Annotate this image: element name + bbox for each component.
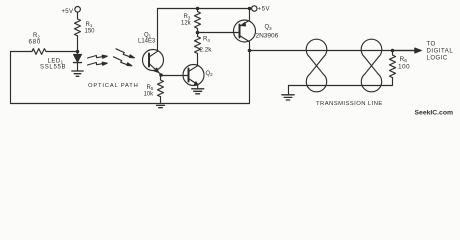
- transistor Q2: [183, 65, 204, 86]
- LED light arrow 1: [88, 55, 108, 58]
- ground transmission line: [282, 95, 294, 100]
- node R1 R2 LED junction: [76, 50, 80, 54]
- wire node to R5: [160, 75, 162, 80]
- wire Q1 collector up: [157, 9, 159, 52]
- svg-text:LOGIC: LOGIC: [427, 56, 448, 62]
- resistor R5: [158, 80, 164, 97]
- ground R5: [157, 105, 165, 107]
- wire R6 top lead: [392, 51, 394, 56]
- svg-text:R4: R4: [203, 37, 210, 43]
- svg-text:+5V: +5V: [258, 7, 271, 13]
- resistor R2: [32, 49, 46, 55]
- svg-text:+5V: +5V: [62, 9, 74, 15]
- svg-text:R3: R3: [184, 14, 191, 20]
- wire R4 to Q2 collector: [197, 54, 199, 66]
- wire rail to Q3 emitter: [249, 9, 251, 21]
- svg-text:TRANSMISSION LINE: TRANSMISSION LINE: [316, 101, 383, 107]
- wire TL ground stub: [288, 86, 290, 95]
- wire Q2 emitter lead: [197, 85, 199, 89]
- svg-text:2.2k: 2.2k: [200, 46, 213, 53]
- node R3 top: [196, 7, 200, 11]
- LED light arrow 2: [88, 62, 108, 65]
- resistor R3: [195, 12, 201, 29]
- svg-text:OPTICAL PATH: OPTICAL PATH: [88, 83, 139, 89]
- svg-text:SeekIC.com: SeekIC.com: [415, 110, 454, 117]
- wire transmission line top: [250, 50, 416, 52]
- resistor R1: [75, 19, 81, 36]
- wire R2 horizontal left: [11, 51, 33, 53]
- ground LED: [72, 71, 83, 76]
- wire R2 to LED junction: [46, 51, 78, 53]
- transistor Q3 2N3906: [234, 20, 256, 42]
- light arrow into Q1 lower: [114, 57, 132, 66]
- svg-text:SSL55B: SSL55B: [40, 64, 66, 70]
- wire transmission line bottom: [289, 85, 393, 87]
- wire Q3 collector down: [249, 42, 251, 50]
- svg-text:DIGITAL: DIGITAL: [427, 48, 454, 54]
- wire R3 to node: [197, 9, 199, 12]
- svg-text:10k: 10k: [144, 91, 155, 97]
- wire R1 bottom lead: [77, 36, 79, 54]
- svg-text:R5: R5: [147, 85, 154, 91]
- node rail Q3 emitter: [248, 7, 252, 11]
- light arrow into Q1 upper: [116, 49, 134, 58]
- svg-text:Q3: Q3: [265, 25, 273, 31]
- phototransistor Q1 L14E3: [143, 50, 164, 75]
- wire vertical to bottom rail: [249, 51, 251, 104]
- wire node to Q2 base: [161, 75, 189, 77]
- ground Q2: [192, 89, 204, 94]
- wire R5 to rail: [160, 97, 162, 104]
- twist 1 transmission line: [306, 39, 327, 92]
- wire bottom rail: [11, 103, 250, 105]
- resistor R6: [390, 55, 396, 78]
- node R6 top: [391, 49, 395, 53]
- node R3 R4 junction: [196, 31, 200, 35]
- svg-text:2N3906: 2N3906: [256, 33, 279, 40]
- svg-text:150: 150: [85, 28, 96, 34]
- LED LED1 SSL55B: [74, 55, 82, 71]
- twist 2 transmission line: [361, 39, 382, 92]
- svg-text:100: 100: [398, 64, 410, 71]
- svg-text:680: 680: [29, 38, 41, 45]
- arrow to digital logic: [393, 50, 416, 52]
- svg-text:Q1: Q1: [144, 32, 152, 38]
- wire left vertical: [10, 52, 12, 104]
- wire rail stub to +5V: [250, 8, 252, 10]
- resistor R4: [195, 37, 201, 54]
- node Q3 collector junction: [248, 49, 252, 53]
- svg-text:TO: TO: [427, 41, 436, 47]
- power +5V terminal left: [75, 7, 81, 13]
- power +5V terminal right: [252, 6, 257, 11]
- wire R6 bottom lead: [392, 78, 394, 86]
- wire R1 top lead: [77, 12, 79, 19]
- svg-text:L14E3: L14E3: [138, 39, 156, 45]
- svg-text:Q2: Q2: [206, 71, 214, 77]
- svg-text:12k: 12k: [181, 21, 192, 27]
- wire node to Q3 base: [198, 32, 240, 34]
- svg-text:R1: R1: [86, 22, 93, 28]
- node Q1 emitter junction: [159, 73, 163, 77]
- wire top rail: [158, 8, 250, 10]
